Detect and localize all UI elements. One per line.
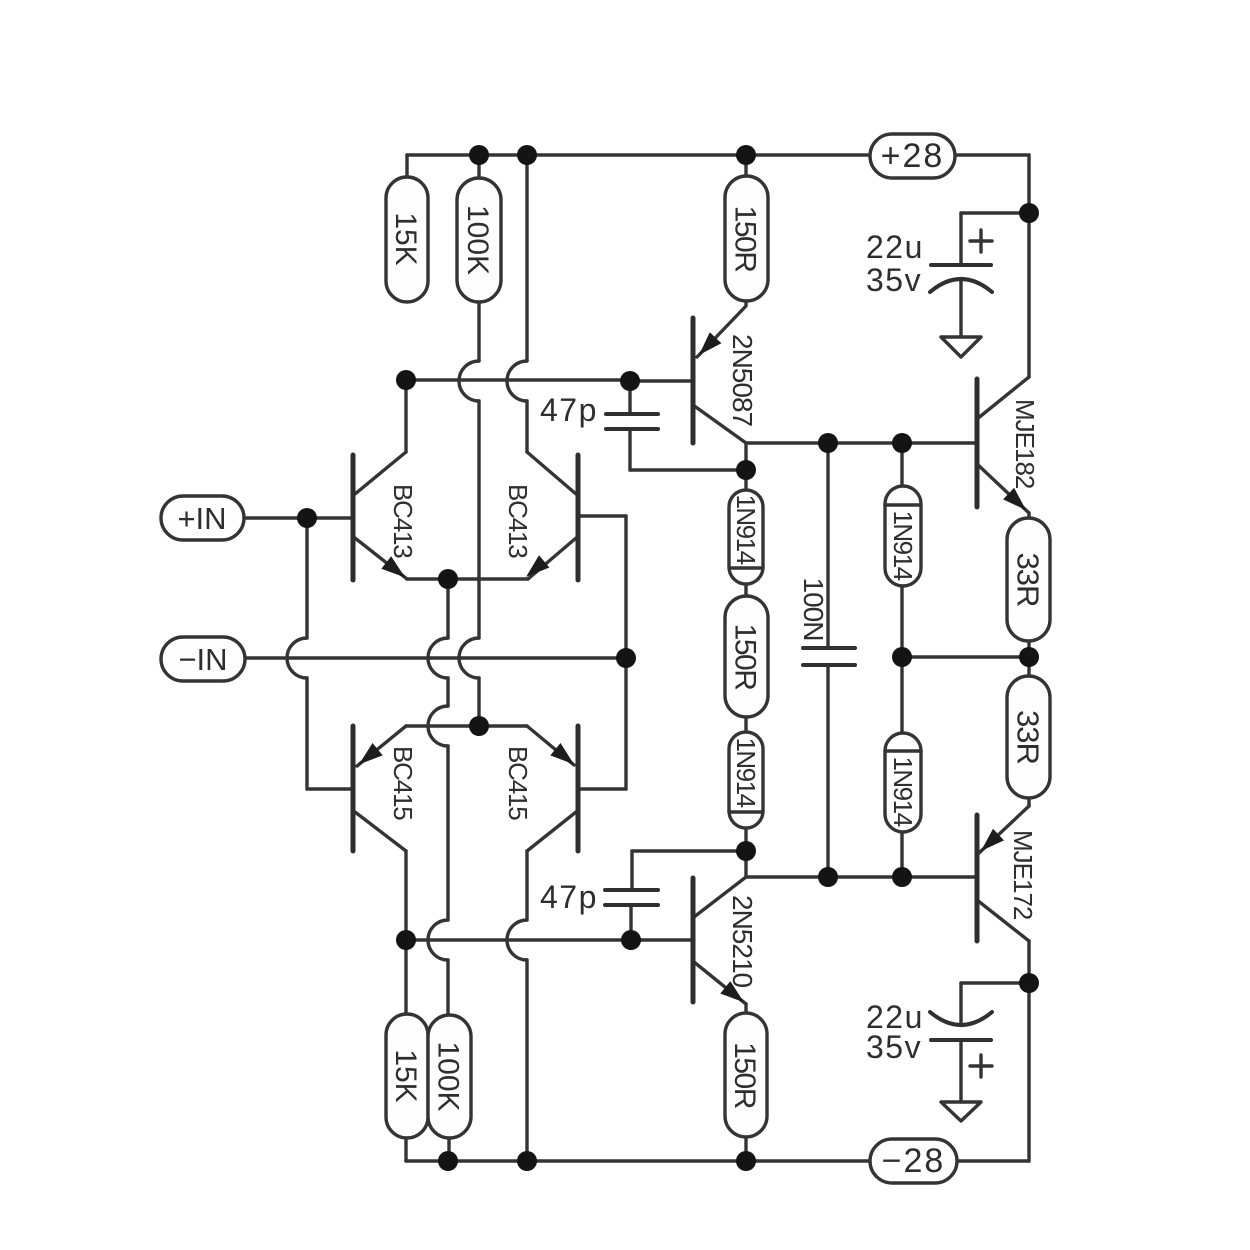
svg-text:2N5087: 2N5087: [727, 334, 758, 427]
svg-text:15K: 15K: [389, 212, 422, 265]
svg-text:MJE182: MJE182: [1010, 399, 1040, 489]
svg-text:47p: 47p: [540, 392, 598, 428]
svg-text:100K: 100K: [432, 1041, 465, 1111]
svg-text:35v: 35v: [866, 262, 922, 298]
svg-text:BC413: BC413: [388, 484, 418, 558]
svg-text:100N: 100N: [798, 578, 829, 641]
svg-text:BC415: BC415: [388, 746, 418, 820]
svg-text:100K: 100K: [461, 205, 494, 275]
svg-text:35v: 35v: [866, 1029, 922, 1065]
svg-text:1N914: 1N914: [888, 510, 918, 580]
svg-text:150R: 150R: [729, 624, 762, 691]
svg-text:MJE172: MJE172: [1008, 830, 1038, 920]
svg-text:2N5210: 2N5210: [727, 895, 758, 988]
svg-text:−IN: −IN: [178, 642, 227, 677]
svg-text:BC413: BC413: [503, 484, 533, 558]
svg-text:47p: 47p: [540, 879, 598, 915]
svg-text:22u: 22u: [866, 229, 924, 265]
svg-text:15K: 15K: [389, 1049, 422, 1102]
svg-text:33R: 33R: [1011, 710, 1046, 764]
svg-text:150R: 150R: [729, 206, 762, 273]
svg-text:1N914: 1N914: [731, 494, 761, 564]
svg-text:−28: −28: [882, 1142, 946, 1180]
svg-text:1N914: 1N914: [888, 756, 918, 826]
svg-text:+IN: +IN: [177, 501, 226, 536]
svg-text:33R: 33R: [1011, 553, 1046, 607]
svg-text:+28: +28: [881, 137, 945, 175]
svg-text:150R: 150R: [728, 1042, 761, 1109]
svg-text:1N914: 1N914: [731, 737, 761, 807]
svg-text:BC415: BC415: [503, 746, 533, 820]
